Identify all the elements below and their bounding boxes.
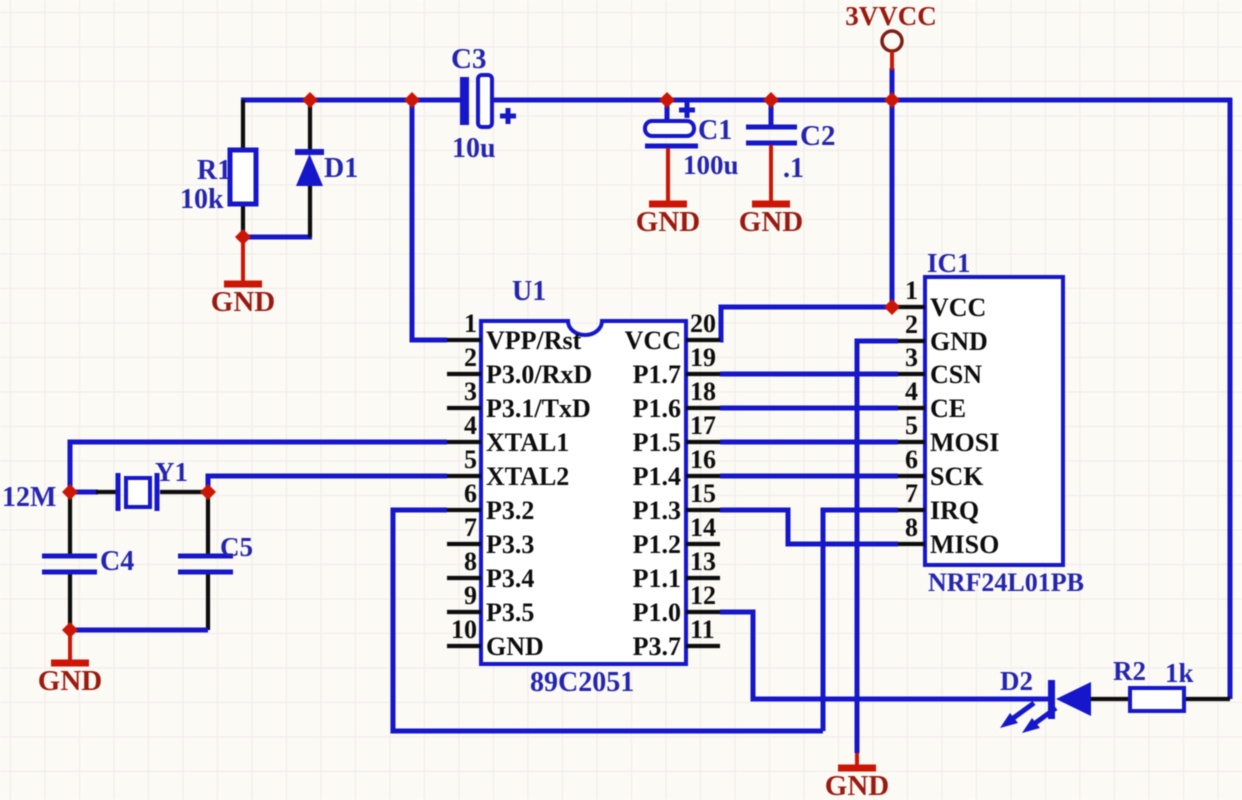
svg-text:MOSI: MOSI	[930, 428, 999, 457]
wire: U1 P1.0 to LED row	[720, 612, 1048, 699]
wire: U1 P1.6 to IC1 CE	[720, 406, 898, 411]
diode D1 triangle	[296, 154, 323, 186]
power port 3VVCC circle	[882, 31, 902, 51]
svg-text:GND: GND	[486, 632, 544, 661]
svg-text:R1: R1	[197, 155, 231, 186]
C3 plus sign	[500, 108, 516, 124]
wire: R2 right lead	[1184, 697, 1230, 701]
junction at C1 branch	[659, 92, 675, 108]
power port 3VVCC lead	[890, 51, 894, 70]
svg-text:C3: C3	[451, 43, 486, 75]
junction at C4/C5 GND	[62, 622, 78, 638]
svg-text:GND: GND	[636, 206, 700, 238]
capacitor C4 bottom plate	[42, 570, 97, 575]
U1 pin 13 stub	[686, 576, 720, 580]
resistor R1	[230, 150, 256, 204]
U1 pin 5 stub	[447, 474, 481, 478]
svg-text:10u: 10u	[452, 133, 496, 164]
svg-text:P1.4: P1.4	[633, 462, 681, 491]
svg-text:P3.7: P3.7	[633, 632, 681, 661]
svg-text:11: 11	[690, 615, 715, 644]
junction at pin1 branch	[404, 92, 420, 108]
junction at D1/top rail	[302, 92, 318, 108]
U1 pin 4 stub	[447, 440, 481, 444]
U1 pin 8 stub	[447, 576, 481, 580]
svg-text:8: 8	[464, 547, 477, 576]
svg-text:16: 16	[690, 445, 716, 474]
wire: junction R1/D1 to GND node horizontal	[241, 235, 312, 240]
svg-text:6: 6	[905, 445, 918, 474]
wire: U1 P1.5 to IC1 MOSI	[720, 440, 898, 445]
U1 pin 17 stub	[686, 440, 720, 444]
svg-text:15: 15	[690, 479, 716, 508]
svg-text:4: 4	[464, 411, 477, 440]
wire: R1 top lead	[241, 100, 245, 152]
wire: top power rail left of C3	[241, 98, 461, 103]
IC1 pin 2 stub	[898, 339, 925, 343]
junction at crystal left	[62, 484, 78, 500]
wire: D1 top lead	[308, 100, 312, 151]
capacitor C2 bottom plate	[746, 141, 797, 146]
ground IC1 GND net: bar	[838, 765, 876, 772]
svg-text:C5: C5	[220, 532, 253, 562]
svg-text:GND: GND	[825, 770, 889, 800]
svg-text:IC1: IC1	[927, 248, 971, 278]
svg-text:1: 1	[905, 276, 918, 305]
svg-text:R2: R2	[1113, 656, 1146, 686]
wire: IRQ vertical from bottom rail to IC1 IRQ	[823, 510, 898, 731]
capacitor C4 top plate	[42, 554, 97, 559]
ground below C4: bar	[51, 660, 89, 667]
svg-text:VCC: VCC	[930, 293, 986, 322]
svg-text:13: 13	[690, 547, 716, 576]
wire: crystal right lead	[160, 490, 208, 494]
junction at IC1 VCC	[884, 299, 900, 315]
svg-text:GND: GND	[211, 286, 275, 318]
wire: top power rail right of C3	[492, 98, 1232, 103]
svg-text:7: 7	[905, 479, 918, 508]
wire: U1 P3.2 down to bottom rail	[393, 510, 823, 731]
crystal Y1 left plate	[116, 473, 121, 511]
svg-text:.1: .1	[783, 153, 804, 184]
wire: D1 bottom lead	[308, 184, 312, 237]
svg-text:20: 20	[690, 309, 716, 338]
svg-text:4: 4	[905, 377, 918, 406]
IC1 pin 7 stub	[898, 508, 925, 512]
svg-text:P3.4: P3.4	[486, 564, 534, 593]
svg-text:GND: GND	[930, 327, 988, 356]
junction at 3VVCC/top rail	[884, 92, 900, 108]
U1 pin 18 stub	[686, 406, 720, 410]
svg-text:VCC: VCC	[625, 326, 681, 355]
svg-text:P3.5: P3.5	[486, 598, 534, 627]
capacitor C3 right plate	[478, 75, 492, 127]
svg-text:GND: GND	[38, 665, 102, 697]
wire: U1 P1.7 to IC1 CSN	[720, 372, 898, 377]
capacitor C1 bottom plate	[645, 144, 698, 149]
svg-text:1k: 1k	[1165, 658, 1194, 688]
svg-text:VPP/Rst: VPP/Rst	[486, 326, 582, 355]
wire: C4 bottom lead	[68, 574, 72, 630]
svg-text:10: 10	[451, 615, 477, 644]
junction at C2 branch	[763, 92, 779, 108]
U1 pin 6 stub	[447, 508, 481, 512]
svg-text:14: 14	[690, 513, 716, 542]
C1 plus sign	[679, 102, 695, 118]
junction at R1/D1/GND	[235, 229, 251, 245]
svg-text:1: 1	[464, 309, 477, 338]
op-amp U1 body (89C2051 MCU)	[481, 321, 686, 664]
svg-text:MISO: MISO	[930, 530, 999, 559]
wire: U1 P1.4 to IC1 SCK	[720, 474, 898, 479]
svg-text:P1.1: P1.1	[633, 564, 681, 593]
svg-text:P3.0/RxD: P3.0/RxD	[486, 360, 592, 389]
svg-text:P3.1/TxD: P3.1/TxD	[486, 394, 591, 423]
wire: vertical from top rail to U1 pin 1	[412, 100, 447, 340]
svg-text:P3.2: P3.2	[486, 496, 534, 525]
svg-text:3VVCC: 3VVCC	[845, 1, 937, 31]
U1 pin 20 stub	[686, 338, 720, 342]
ground below C2: lead	[769, 145, 773, 204]
svg-text:C1: C1	[698, 115, 732, 146]
svg-text:CSN: CSN	[930, 360, 982, 389]
wire: C2 top lead	[769, 100, 774, 127]
wire: C5 top lead	[206, 494, 210, 554]
wire: R1 bottom lead	[241, 202, 245, 237]
LED D2 triangle	[1056, 682, 1091, 716]
svg-text:5: 5	[464, 445, 477, 474]
svg-text:P1.3: P1.3	[633, 496, 681, 525]
wire: C5 bottom lead	[206, 574, 210, 630]
LED D2 emission arrow 2	[1034, 708, 1056, 724]
U1 pin 19 stub	[686, 372, 720, 376]
svg-text:12M: 12M	[2, 482, 56, 513]
svg-text:D2: D2	[1000, 666, 1033, 696]
wire: XTAL1 horizontal	[70, 442, 447, 492]
ground below C2: bar	[752, 201, 790, 208]
svg-text:P1.6: P1.6	[633, 394, 681, 423]
svg-text:XTAL2: XTAL2	[486, 462, 569, 491]
svg-text:10k: 10k	[180, 184, 224, 215]
svg-text:P1.5: P1.5	[633, 428, 681, 457]
capacitor C3 (polarized), left plate	[460, 77, 469, 125]
U1 pin 2 stub	[447, 372, 481, 376]
crystal Y1 right plate	[155, 473, 160, 511]
svg-text:5: 5	[905, 411, 918, 440]
resistor R2	[1130, 688, 1184, 711]
svg-text:17: 17	[690, 411, 716, 440]
capacitor C5 top plate	[178, 554, 233, 559]
svg-text:3: 3	[905, 343, 918, 372]
crystal Y1 body	[126, 478, 150, 507]
IC1 pin 6 stub	[898, 474, 925, 478]
ground below C1: bar	[649, 201, 687, 208]
svg-text:U1: U1	[512, 276, 546, 307]
svg-text:NRF24L01PB: NRF24L01PB	[928, 568, 1084, 597]
U1 pin 16 stub	[686, 474, 720, 478]
U1 pin 10 stub	[447, 644, 481, 648]
IC1 pin 3 stub	[898, 372, 925, 376]
wire: 3VVCC vertical to IC1 pin 1	[890, 68, 895, 307]
svg-text:2: 2	[464, 343, 477, 372]
svg-text:CE: CE	[930, 394, 966, 423]
svg-text:Y1: Y1	[155, 457, 188, 487]
U1 pin 11 stub	[686, 644, 720, 648]
IC1 pin 4 stub	[898, 406, 925, 410]
svg-text:7: 7	[464, 513, 477, 542]
svg-text:6: 6	[464, 479, 477, 508]
svg-text:12: 12	[690, 581, 716, 610]
U1 pin 14 stub	[686, 542, 720, 546]
ground below R1: bar	[224, 281, 262, 288]
wire: LED anode lead	[1091, 697, 1130, 701]
svg-text:3: 3	[464, 377, 477, 406]
svg-text:P3.3: P3.3	[486, 530, 534, 559]
wire: C1 top lead	[665, 100, 670, 122]
svg-text:8: 8	[905, 513, 918, 542]
U1 pin 15 stub	[686, 508, 720, 512]
wire: IC1 GND net vertical	[857, 341, 898, 753]
wire: C4 top lead	[68, 494, 72, 554]
svg-text:P1.7: P1.7	[633, 360, 681, 389]
svg-text:18: 18	[690, 377, 716, 406]
wire: U1 P1.3 to IC1 MISO jog	[720, 510, 898, 544]
capacitor C1 (polarized electrolytic), top plate	[645, 121, 694, 136]
wire: XTAL2 horizontal	[208, 476, 447, 492]
ground IC1 GND net: lead	[855, 753, 859, 768]
svg-text:SCK: SCK	[930, 462, 984, 491]
svg-text:IRQ: IRQ	[930, 496, 979, 525]
U1 pin 3 stub	[447, 406, 481, 410]
svg-text:9: 9	[464, 581, 477, 610]
wire: crystal left lead	[70, 490, 98, 495]
capacitor C5 bottom plate	[178, 570, 233, 575]
U1 pin 7 stub	[447, 542, 481, 546]
U1 pin 1 stub	[447, 338, 481, 342]
IC1 pin 8 stub	[898, 542, 925, 546]
U1 pin 12 stub	[686, 610, 720, 614]
svg-text:D1: D1	[324, 153, 358, 184]
svg-text:89C2051: 89C2051	[530, 667, 634, 698]
U1 pin 9 stub	[447, 610, 481, 614]
LED D2 cathode bar	[1048, 680, 1055, 719]
wire: right vertical rail	[1228, 98, 1233, 699]
svg-text:P1.2: P1.2	[633, 530, 681, 559]
svg-text:P1.0: P1.0	[633, 598, 681, 627]
svg-text:GND: GND	[739, 206, 803, 238]
svg-text:C4: C4	[100, 546, 134, 577]
LED D2 emission arrow 1	[1012, 703, 1034, 719]
IC1 pin 5 stub	[898, 440, 925, 444]
svg-text:C2: C2	[800, 120, 835, 152]
ground below C1: lead	[666, 148, 670, 204]
svg-text:19: 19	[690, 343, 716, 372]
wire: U1 pin20 to IC1 pin1 jog	[720, 307, 898, 340]
svg-text:XTAL1: XTAL1	[486, 428, 569, 457]
svg-text:2: 2	[905, 310, 918, 339]
ground below C4: lead	[68, 632, 72, 663]
diode D1 (zener), cathode bar	[295, 149, 324, 155]
ground below R1: lead	[241, 239, 245, 284]
svg-text:100u: 100u	[683, 150, 739, 180]
IC1 pin 1 stub	[898, 305, 925, 309]
IC1 body (NRF24L01PB module)	[925, 277, 1063, 565]
junction at crystal right	[200, 484, 216, 500]
wire: bottom left horizontal C4-C5	[70, 628, 208, 633]
capacitor C2, top plate	[746, 125, 797, 130]
